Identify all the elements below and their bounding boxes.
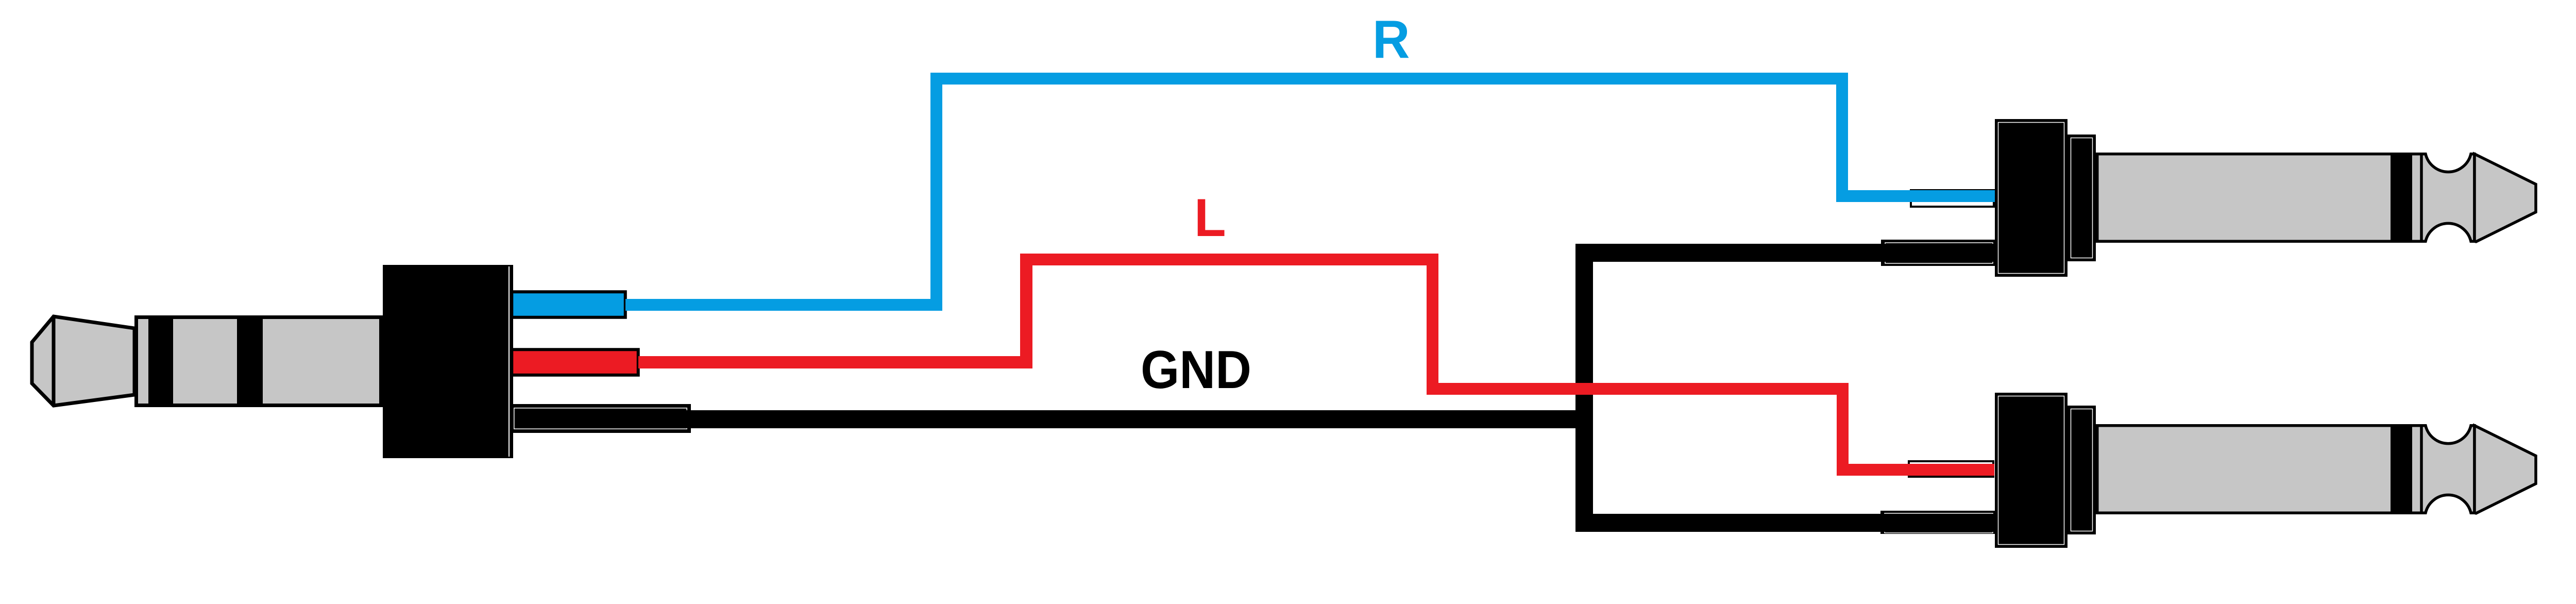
plug P2 insulator ring [2391, 153, 2412, 243]
wire GND main run [515, 410, 1593, 428]
wire L mid drop [1427, 254, 1438, 395]
wire L right drop [1837, 383, 1849, 476]
plug P3 insulator ring [2391, 424, 2412, 514]
plug P1 ring band 2 [237, 315, 263, 407]
wire GND branch to P2 [1575, 244, 1996, 262]
wire L top run [1020, 254, 1438, 265]
plug P2 tip waist [2421, 154, 2475, 242]
pin stub blue P2 [1911, 190, 1994, 207]
wire GND trunk junction [1575, 244, 1593, 532]
wire R left riser [930, 73, 942, 311]
plug P2 barrel [2097, 154, 2422, 242]
plug P1 3.5mm TRS tip [32, 316, 134, 406]
plug P3 housing cap [1996, 394, 2066, 547]
plug P1 ring band 1 [148, 315, 173, 407]
pin stub red P3 [1909, 461, 1993, 477]
wire GND branch to P3 [1575, 514, 1996, 532]
wire R right drop [1836, 73, 1848, 202]
plug P3 tip waist [2421, 426, 2475, 513]
plug P1 housing [383, 265, 513, 458]
pin stub blue P1 [512, 292, 625, 317]
wire R right segment [1836, 190, 1995, 202]
plug P2 tip cone [2475, 154, 2536, 242]
plug P1 barrel [137, 317, 381, 406]
pin stub black P1 [512, 406, 689, 431]
plug P2 housing cap [1996, 121, 2066, 276]
plug P3 barrel [2097, 426, 2422, 513]
pin stub black P3 [1882, 512, 1995, 533]
wire L left riser [1020, 254, 1032, 368]
plug P3 tip cone [2475, 426, 2536, 513]
wire R top run [930, 73, 1848, 85]
svg-text:R: R [1372, 10, 1410, 70]
plug P3 housing collar [2069, 407, 2095, 533]
plug P2 housing collar [2069, 136, 2095, 260]
wire L left segment [638, 356, 1032, 368]
svg-text:GND: GND [1141, 340, 1251, 400]
svg-text:L: L [1194, 188, 1226, 248]
wire L mid segment [1427, 383, 1849, 395]
wire L bottom segment [1837, 464, 1994, 476]
wire R left segment [625, 299, 942, 311]
pin stub red P1 [512, 349, 638, 375]
pin stub black P2 [1882, 241, 1995, 265]
